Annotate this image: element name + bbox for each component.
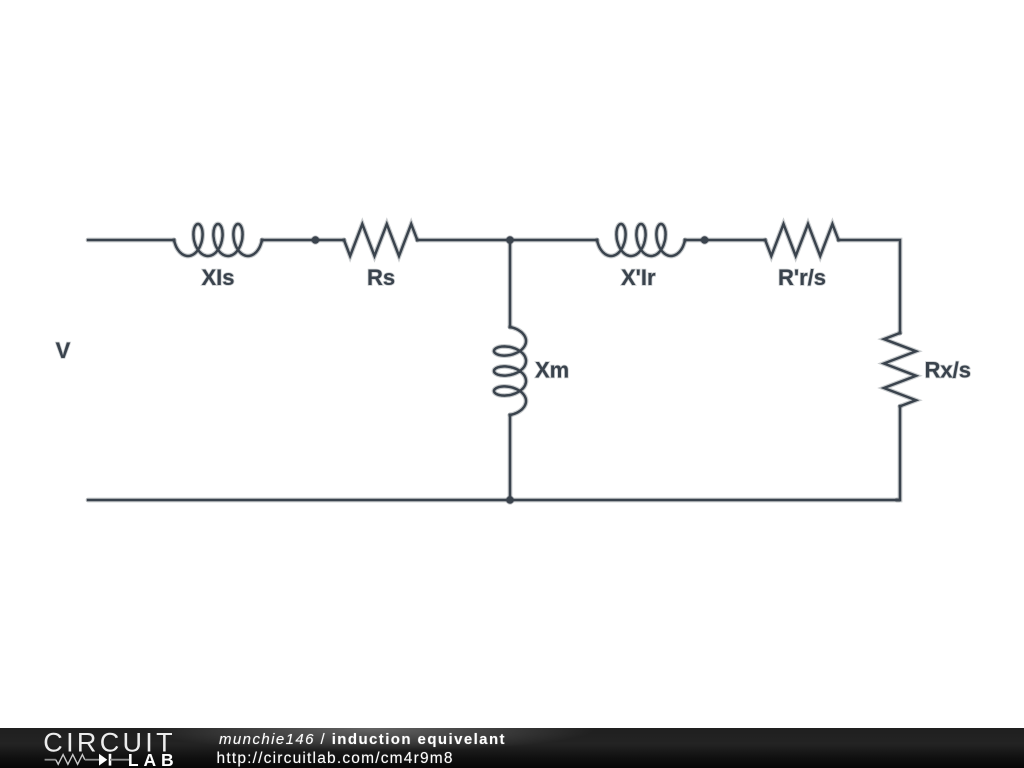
CircuitLab logo <box>0 728 200 768</box>
inductor X'Ir <box>597 224 685 256</box>
node center junction <box>506 236 513 243</box>
svg-text:V: V <box>56 338 71 363</box>
logo wire mid <box>85 759 99 761</box>
wire center junction down to Xm <box>508 239 513 327</box>
footer bar <box>0 728 1024 768</box>
wire R'r/s to top-right corner and down to Rx/s <box>839 240 901 333</box>
logo resistor <box>56 755 85 765</box>
wire XIs to node A <box>262 238 344 243</box>
node bottom junction <box>506 496 513 503</box>
inductor XIs <box>174 224 262 256</box>
inductor Xm <box>494 327 526 415</box>
svg-text:R'r/s: R'r/s <box>778 265 826 290</box>
wire center junction to X'Ir <box>509 238 597 243</box>
footer title <box>219 731 506 748</box>
logo diode <box>99 754 107 766</box>
resistor R'r/s <box>765 224 838 256</box>
svg-text:XIs: XIs <box>201 265 234 290</box>
resistor Rx/s <box>884 333 916 406</box>
logo diode cathode bar <box>109 754 112 766</box>
logo wire right <box>110 759 129 761</box>
wire Rs to center junction <box>417 238 511 243</box>
wire Xm to bottom junction <box>508 415 513 500</box>
svg-text:X'Ir: X'Ir <box>621 265 656 290</box>
wire V+ port to XIs <box>88 238 174 243</box>
node between X'Ir and R'r/s <box>701 236 708 243</box>
resistor Rs <box>344 224 417 256</box>
svg-text:Rs: Rs <box>367 265 395 290</box>
svg-text:Rx/s: Rx/s <box>925 358 971 383</box>
footer url <box>217 750 454 768</box>
logo wire left <box>45 759 56 761</box>
wire bottom rail <box>88 498 899 503</box>
svg-text:Xm: Xm <box>535 358 569 383</box>
wire X'Ir to node B <box>685 238 765 243</box>
node between XIs and Rs <box>312 236 319 243</box>
wire Rx/s to bottom-right corner <box>897 406 900 500</box>
svg-text:LAB: LAB <box>128 750 179 768</box>
